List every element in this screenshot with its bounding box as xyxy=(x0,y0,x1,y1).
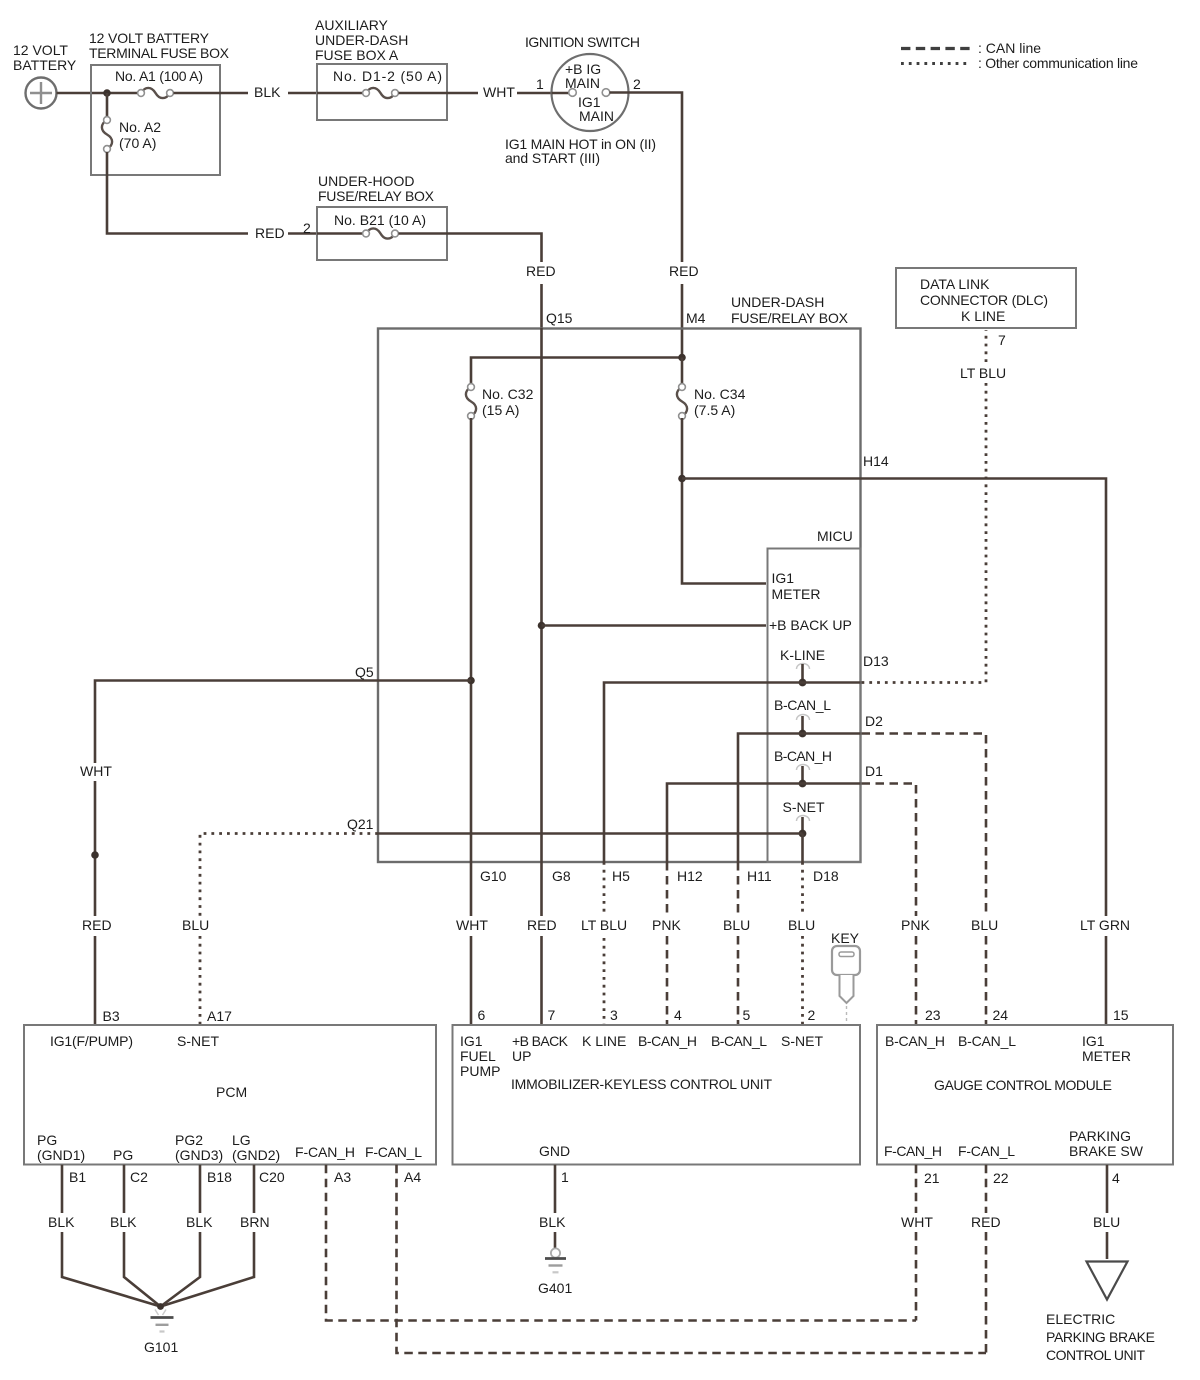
svg-text:No. C32: No. C32 xyxy=(482,386,534,402)
wire ignition pin2 down (M4 feed), RED xyxy=(610,93,683,358)
svg-text:Q15: Q15 xyxy=(546,310,573,326)
svg-text:PCM: PCM xyxy=(216,1084,247,1100)
legend other communication line xyxy=(901,55,1138,71)
wire into under-hood box xyxy=(317,232,364,235)
svg-text:MAIN: MAIN xyxy=(579,108,614,124)
svg-text:BLU: BLU xyxy=(182,917,209,933)
12 volt battery terminal fuse box xyxy=(89,30,230,175)
svg-text:H11: H11 xyxy=(747,868,772,884)
svg-text:PG: PG xyxy=(37,1132,57,1148)
svg-text:FUSE BOX A: FUSE BOX A xyxy=(315,47,399,63)
svg-text:B-CAN_L: B-CAN_L xyxy=(711,1033,767,1049)
svg-text:F-CAN_H: F-CAN_H xyxy=(884,1143,942,1159)
svg-text:(GND2): (GND2) xyxy=(232,1147,280,1163)
svg-text:BLK: BLK xyxy=(48,1214,75,1230)
MICU B-CAN_L pin xyxy=(774,697,831,737)
svg-text:7: 7 xyxy=(548,1007,556,1023)
svg-text:BLK: BLK xyxy=(539,1214,566,1230)
svg-text:BLU: BLU xyxy=(788,917,815,933)
svg-text:IG1: IG1 xyxy=(772,570,795,586)
wire Q21 dotted to PCM A17 xyxy=(200,834,378,1026)
svg-text:WHT: WHT xyxy=(456,917,488,933)
svg-text:PNK: PNK xyxy=(901,917,930,933)
splice node WHT to RED xyxy=(91,851,99,859)
svg-text:G8: G8 xyxy=(552,868,571,884)
svg-text:WHT: WHT xyxy=(901,1214,933,1230)
svg-text:H5: H5 xyxy=(612,868,630,884)
svg-text:CONTROL UNIT: CONTROL UNIT xyxy=(1046,1347,1145,1363)
svg-text:S-NET: S-NET xyxy=(177,1033,219,1049)
svg-text:MICU: MICU xyxy=(817,528,853,544)
immobilizer-keyless control unit box xyxy=(453,1025,861,1165)
wire fuse A2 down and right, RED xyxy=(107,152,317,234)
svg-text:(70 A): (70 A) xyxy=(119,135,156,151)
svg-text:7: 7 xyxy=(998,332,1006,348)
svg-text:B-CAN_H: B-CAN_H xyxy=(774,748,832,764)
wire M4 branch to fuse C32 xyxy=(471,358,682,386)
svg-text:RED: RED xyxy=(527,917,557,933)
svg-text:PNK: PNK xyxy=(652,917,681,933)
svg-text:UP: UP xyxy=(512,1048,531,1064)
svg-text:KEY: KEY xyxy=(831,930,860,946)
svg-text:2: 2 xyxy=(808,1007,816,1023)
wire M4 to fuse C34 xyxy=(681,358,684,386)
svg-text:1: 1 xyxy=(561,1169,569,1185)
under-hood fuse/relay box xyxy=(303,173,447,260)
svg-text:BLU: BLU xyxy=(971,917,998,933)
svg-text:K LINE: K LINE xyxy=(961,308,1005,324)
ignition switch xyxy=(505,34,656,166)
node junction H14 branch xyxy=(678,475,686,483)
svg-text:BLU: BLU xyxy=(723,917,750,933)
wire under-hood box to Q15 drop, RED xyxy=(399,234,542,329)
svg-text:RED: RED xyxy=(669,263,699,279)
wire B-CAN_L to H11 xyxy=(738,734,803,863)
node junction M4/C32 branch xyxy=(678,354,686,362)
svg-text:FUEL: FUEL xyxy=(460,1048,496,1064)
svg-text:METER: METER xyxy=(1082,1048,1131,1064)
svg-text:LG: LG xyxy=(232,1132,251,1148)
wire PG2 BLK xyxy=(161,1165,201,1307)
svg-text:BLU: BLU xyxy=(1093,1214,1120,1230)
svg-text:A4: A4 xyxy=(404,1169,421,1185)
svg-text:B18: B18 xyxy=(207,1169,232,1185)
svg-text:WHT: WHT xyxy=(80,763,112,779)
svg-text:A17: A17 xyxy=(207,1008,232,1024)
svg-text:12 VOLT BATTERY: 12 VOLT BATTERY xyxy=(89,30,210,46)
svg-text:4: 4 xyxy=(1112,1170,1120,1186)
svg-text:No. D1-2 (50 A): No. D1-2 (50 A) xyxy=(333,68,442,84)
svg-text:3: 3 xyxy=(610,1007,618,1023)
wire D1 dashed to gauge B-CAN_H xyxy=(803,782,861,785)
svg-text:DATA LINK: DATA LINK xyxy=(920,276,990,292)
MICU K-LINE pin xyxy=(780,647,825,686)
fuse B21 (10 A) xyxy=(334,212,426,239)
svg-text:: CAN line: : CAN line xyxy=(978,40,1041,56)
svg-text:TERMINAL FUSE BOX: TERMINAL FUSE BOX xyxy=(89,45,230,61)
svg-text:D18: D18 xyxy=(813,868,839,884)
svg-text:B1: B1 xyxy=(69,1169,86,1185)
wire H14 to gauge control module xyxy=(682,479,1106,1026)
svg-text:No. B21 (10 A): No. B21 (10 A) xyxy=(334,212,426,228)
wire Q15 down to +B BACK UP junction and G8 xyxy=(540,328,543,1025)
wire battery to fuse box xyxy=(57,92,140,95)
wire LG BRN xyxy=(161,1165,255,1307)
svg-text:FUSE/RELAY BOX: FUSE/RELAY BOX xyxy=(318,188,435,204)
fuse C32 (15 A) xyxy=(466,384,534,420)
fuse D1-2 (50 A) xyxy=(333,68,442,98)
wire H5 dotted to immobilizer K LINE, LT BLU xyxy=(603,862,606,1025)
svg-text:F-CAN_H: F-CAN_H xyxy=(295,1144,355,1160)
node junction Q5 branch xyxy=(467,677,475,685)
svg-text:FUSE/RELAY BOX: FUSE/RELAY BOX xyxy=(731,310,849,326)
svg-text:(GND3): (GND3) xyxy=(175,1147,223,1163)
svg-text:RED: RED xyxy=(526,263,556,279)
battery 12V xyxy=(13,42,77,109)
fuse A2 (70 A) xyxy=(102,117,161,153)
svg-text:WHT: WHT xyxy=(483,84,515,100)
svg-text:No. A2: No. A2 xyxy=(119,119,161,135)
legend CAN line xyxy=(901,40,1041,56)
svg-text:23: 23 xyxy=(925,1007,941,1023)
svg-text:IMMOBILIZER-KEYLESS CONTROL UN: IMMOBILIZER-KEYLESS CONTROL UNIT xyxy=(511,1076,772,1092)
wire C34 output down to MICU IG1 METER xyxy=(682,418,766,584)
wire parking brake sw 4, BLU xyxy=(1106,1165,1109,1259)
svg-text:(7.5 A): (7.5 A) xyxy=(694,402,735,418)
svg-text:G401: G401 xyxy=(538,1280,572,1296)
svg-text:B-CAN_H: B-CAN_H xyxy=(638,1033,697,1049)
svg-text:12 VOLT: 12 VOLT xyxy=(13,42,68,58)
wire C32 output down (G10/Q5 feed) xyxy=(470,418,473,1025)
under-dash fuse/relay box xyxy=(378,294,861,862)
svg-text:+B BACK UP: +B BACK UP xyxy=(769,617,852,633)
svg-text:No. C34: No. C34 xyxy=(694,386,746,402)
svg-text:GND: GND xyxy=(539,1143,570,1159)
svg-text:No. A1 (100 A): No. A1 (100 A) xyxy=(115,68,203,84)
svg-text:K LINE: K LINE xyxy=(582,1033,626,1049)
svg-text:C20: C20 xyxy=(259,1169,285,1185)
svg-text:S-NET: S-NET xyxy=(783,799,825,815)
svg-text:1: 1 xyxy=(536,76,544,92)
gauge control module box xyxy=(877,1025,1173,1165)
svg-text:2: 2 xyxy=(303,220,311,236)
wire B-CAN_H to H12 xyxy=(667,784,803,863)
svg-text:B-CAN_H: B-CAN_H xyxy=(885,1033,945,1049)
svg-text:: Other communication line: : Other communication line xyxy=(978,55,1138,71)
auxiliary under-dash fuse box A xyxy=(315,17,447,120)
svg-text:D2: D2 xyxy=(865,713,883,729)
wire D13 dotted to DLC xyxy=(803,681,861,684)
svg-text:BLK: BLK xyxy=(186,1214,213,1230)
svg-text:IG1(F/PUMP): IG1(F/PUMP) xyxy=(50,1033,133,1049)
PCM box xyxy=(24,1025,436,1165)
wire fuse A1 to aux box, BLK xyxy=(174,92,318,95)
svg-text:RED: RED xyxy=(971,1214,1001,1230)
arrow to electric parking brake control unit xyxy=(1046,1262,1155,1364)
ground G401 xyxy=(538,1248,572,1296)
svg-text:B-CAN_L: B-CAN_L xyxy=(958,1033,1016,1049)
svg-text:B-CAN_L: B-CAN_L xyxy=(774,697,831,713)
key symbol xyxy=(831,930,860,1025)
svg-text:PARKING BRAKE: PARKING BRAKE xyxy=(1046,1329,1155,1345)
svg-text:METER: METER xyxy=(772,586,821,602)
svg-text:PARKING: PARKING xyxy=(1069,1128,1131,1144)
svg-text:BATTERY: BATTERY xyxy=(13,57,77,73)
svg-text:M4: M4 xyxy=(686,310,706,326)
svg-text:F-CAN_L: F-CAN_L xyxy=(365,1144,422,1160)
svg-text:Q5: Q5 xyxy=(355,664,374,680)
svg-text:D13: D13 xyxy=(863,653,889,669)
svg-text:UNDER-DASH: UNDER-DASH xyxy=(731,294,824,310)
fuse A1 (100 A) xyxy=(115,68,203,98)
svg-text:B3: B3 xyxy=(103,1008,120,1024)
svg-text:ELECTRIC: ELECTRIC xyxy=(1046,1311,1115,1327)
wire PG BLK xyxy=(124,1165,161,1307)
svg-text:PG: PG xyxy=(113,1147,133,1163)
svg-text:UNDER-DASH: UNDER-DASH xyxy=(315,32,408,48)
svg-text:BRAKE SW: BRAKE SW xyxy=(1069,1143,1144,1159)
node junction battery feed xyxy=(103,89,111,97)
svg-text:IGNITION SWITCH: IGNITION SWITCH xyxy=(525,34,640,50)
wire into aux box xyxy=(317,92,364,95)
MICU S-NET pin xyxy=(783,799,825,837)
svg-text:AUXILIARY: AUXILIARY xyxy=(315,17,389,33)
wire D18 dotted to immobilizer S-NET, BLU xyxy=(801,862,804,1025)
wire F-CAN_H A3 dashed xyxy=(326,1165,916,1321)
wire K-LINE to H5 xyxy=(604,683,803,863)
svg-text:+B BACK: +B BACK xyxy=(512,1033,569,1049)
wire H11 dashed to immobilizer B-CAN_L, BLU xyxy=(737,862,740,1025)
svg-text:and START (III): and START (III) xyxy=(505,150,600,166)
svg-text:2: 2 xyxy=(633,76,641,92)
svg-text:IG1: IG1 xyxy=(1082,1033,1105,1049)
wire aux box to ignition, WHT xyxy=(399,92,570,95)
svg-text:C2: C2 xyxy=(130,1169,148,1185)
wire D2 dashed to gauge B-CAN_L xyxy=(803,732,861,735)
svg-text:LT BLU: LT BLU xyxy=(581,917,627,933)
svg-text:H12: H12 xyxy=(677,868,703,884)
svg-text:PG2: PG2 xyxy=(175,1132,203,1148)
wire +B BACK UP into MICU xyxy=(542,624,767,627)
svg-text:IG1: IG1 xyxy=(460,1033,483,1049)
svg-text:H14: H14 xyxy=(863,453,889,469)
svg-text:S-NET: S-NET xyxy=(781,1033,823,1049)
wire F-CAN_L 22 dashed, RED xyxy=(985,1165,988,1353)
MICU B-CAN_H pin xyxy=(774,748,832,787)
svg-text:K-LINE: K-LINE xyxy=(780,647,825,663)
svg-text:CONNECTOR (DLC): CONNECTOR (DLC) xyxy=(920,292,1048,308)
MICU box xyxy=(768,528,861,862)
svg-text:4: 4 xyxy=(674,1007,682,1023)
svg-text:PUMP: PUMP xyxy=(460,1063,500,1079)
wire F-CAN_L A4 dashed xyxy=(397,1165,987,1353)
wire Q5 to PCM, WHT/RED splice xyxy=(95,681,471,1026)
svg-text:5: 5 xyxy=(743,1007,751,1023)
wire F-CAN_H 21 dashed, WHT xyxy=(915,1165,918,1321)
svg-text:F-CAN_L: F-CAN_L xyxy=(958,1143,1015,1159)
fuse C34 (7.5 A) xyxy=(677,384,746,420)
svg-text:D1: D1 xyxy=(865,763,883,779)
wire S-NET to Q21, D18 down xyxy=(378,834,803,863)
svg-text:G10: G10 xyxy=(480,868,507,884)
svg-text:LT GRN: LT GRN xyxy=(1080,917,1130,933)
svg-text:21: 21 xyxy=(924,1170,940,1186)
svg-text:Q21: Q21 xyxy=(347,816,374,832)
svg-text:BLK: BLK xyxy=(254,84,281,100)
svg-text:GAUGE CONTROL MODULE: GAUGE CONTROL MODULE xyxy=(934,1077,1112,1093)
wire PG GND1 BLK xyxy=(62,1165,161,1307)
node junction +B BACK UP xyxy=(538,622,546,630)
svg-text:(GND1): (GND1) xyxy=(37,1147,85,1163)
wire GND to G401, BLK xyxy=(554,1165,557,1248)
svg-text:6: 6 xyxy=(478,1007,486,1023)
svg-text:15: 15 xyxy=(1113,1007,1129,1023)
svg-text:A3: A3 xyxy=(334,1169,351,1185)
svg-text:22: 22 xyxy=(993,1170,1009,1186)
svg-text:(15 A): (15 A) xyxy=(482,402,519,418)
wire node to fuse A2 xyxy=(106,93,109,118)
DLC data link connector box xyxy=(896,268,1076,381)
svg-text:24: 24 xyxy=(993,1007,1009,1023)
svg-text:BRN: BRN xyxy=(240,1214,270,1230)
wire H12 dashed to immobilizer B-CAN_H, PNK xyxy=(666,862,669,1025)
svg-text:LT BLU: LT BLU xyxy=(960,365,1006,381)
ground G101 xyxy=(144,1303,178,1355)
svg-text:RED: RED xyxy=(255,225,285,241)
svg-text:UNDER-HOOD: UNDER-HOOD xyxy=(318,173,414,189)
svg-text:G101: G101 xyxy=(144,1339,178,1355)
svg-text:RED: RED xyxy=(82,917,112,933)
svg-text:BLK: BLK xyxy=(110,1214,137,1230)
